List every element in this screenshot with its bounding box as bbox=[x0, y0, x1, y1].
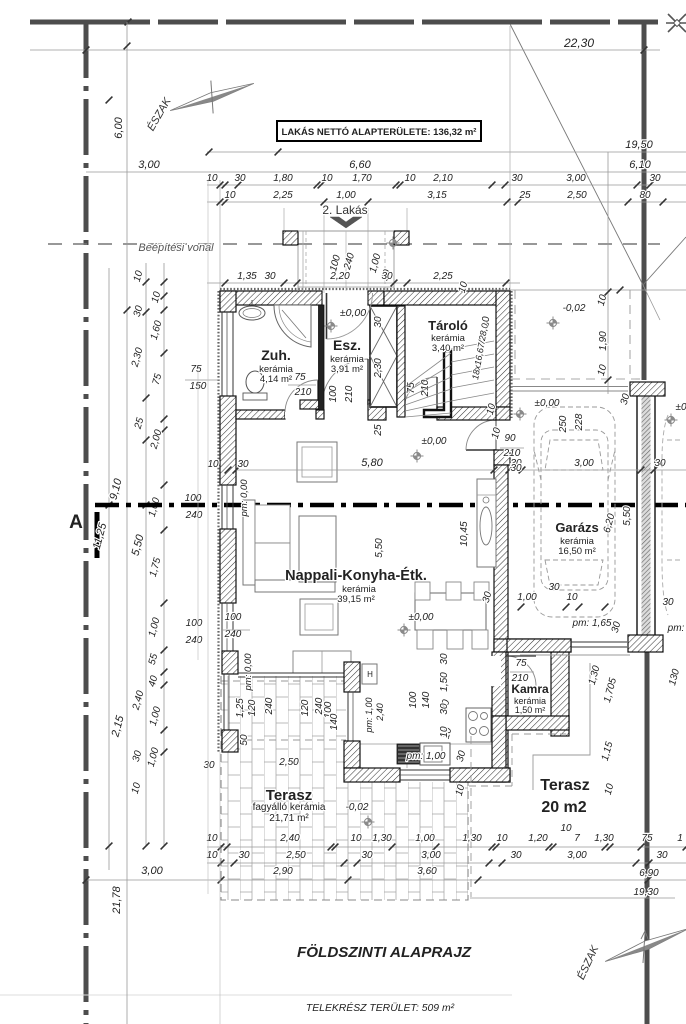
Kamra south wall bbox=[506, 716, 569, 730]
svg-text:4,14 m²: 4,14 m² bbox=[260, 374, 292, 385]
svg-text:30: 30 bbox=[510, 463, 522, 474]
garage face line bbox=[509, 469, 686, 471]
svg-text:pm: 0,00: pm: 0,00 bbox=[239, 479, 250, 518]
svg-text:100: 100 bbox=[225, 612, 242, 623]
tv bench south bbox=[293, 651, 351, 673]
svg-text:Kamra: Kamra bbox=[511, 682, 549, 696]
wall north exterior middle pier bbox=[368, 291, 384, 305]
Kamra step wall lower bbox=[492, 716, 506, 782]
dimension line 22,30 bbox=[30, 49, 660, 51]
porch threshold line bbox=[298, 286, 394, 288]
kitchen south wall west bbox=[344, 768, 400, 782]
svg-text:5,50: 5,50 bbox=[374, 538, 385, 558]
svg-text:±0,00: ±0,00 bbox=[409, 612, 434, 623]
svg-text:10: 10 bbox=[560, 823, 572, 834]
kitchen sink unit dark bbox=[397, 744, 420, 764]
property boundary right upper bbox=[642, 22, 647, 380]
level marker Esz bbox=[325, 320, 338, 333]
svg-text:1,70: 1,70 bbox=[352, 173, 372, 184]
bottom dim row 4 y=898 bbox=[470, 897, 675, 899]
svg-text:±0,00: ±0,00 bbox=[422, 436, 447, 447]
svg-text:-0,02: -0,02 bbox=[346, 802, 369, 813]
svg-text:1,90: 1,90 bbox=[598, 331, 609, 351]
wall west exterior pier 2 bbox=[220, 396, 236, 485]
terrace tiled floor bbox=[221, 676, 468, 900]
svg-text:10: 10 bbox=[321, 173, 333, 184]
svg-text:1,00: 1,00 bbox=[415, 833, 435, 844]
garage face dim line bbox=[490, 289, 686, 291]
stair treads upper bbox=[451, 341, 494, 349]
kitchen counter vertical lines bbox=[477, 494, 496, 496]
Kamra east wall bbox=[551, 652, 569, 736]
svg-text:5,50: 5,50 bbox=[622, 506, 633, 526]
svg-text:3,00: 3,00 bbox=[567, 850, 587, 861]
svg-text:120: 120 bbox=[247, 699, 258, 716]
svg-text:210: 210 bbox=[503, 448, 521, 459]
toilet Zuh bbox=[243, 393, 267, 400]
svg-text:100: 100 bbox=[185, 493, 202, 504]
property boundary top bbox=[30, 20, 658, 25]
svg-text:3,40 m²: 3,40 m² bbox=[432, 343, 464, 354]
left dim vertical line x=146 bbox=[145, 263, 147, 846]
porch steps bbox=[302, 231, 304, 291]
neighbour level marker bbox=[665, 414, 678, 427]
right dim ticks bbox=[605, 289, 612, 296]
svg-text:10: 10 bbox=[404, 173, 416, 184]
kitchen south east wall bbox=[450, 768, 510, 782]
svg-text:1,50: 1,50 bbox=[439, 672, 450, 692]
fridge H box bbox=[362, 664, 377, 684]
svg-text:30: 30 bbox=[439, 703, 450, 715]
svg-text:22,30: 22,30 bbox=[563, 36, 594, 50]
svg-text:140: 140 bbox=[329, 713, 340, 730]
dimension row y=176 bbox=[86, 171, 686, 173]
svg-text:19,30: 19,30 bbox=[633, 887, 658, 898]
svg-text:2,30: 2,30 bbox=[373, 358, 384, 379]
coffee table bbox=[299, 516, 336, 582]
svg-text:39,15 m²: 39,15 m² bbox=[337, 594, 375, 605]
svg-text:30: 30 bbox=[511, 173, 523, 184]
bottom dim row 2 y=863 bbox=[207, 862, 686, 864]
svg-text:1,30: 1,30 bbox=[594, 833, 614, 844]
svg-text:3,91 m²: 3,91 m² bbox=[331, 364, 363, 375]
svg-text:10: 10 bbox=[224, 190, 236, 201]
svg-text:±0,00: ±0,00 bbox=[340, 307, 366, 319]
svg-text:2,40: 2,40 bbox=[375, 703, 385, 722]
svg-text:30: 30 bbox=[656, 850, 668, 861]
section line A-A bbox=[95, 503, 686, 508]
svg-text:10,45: 10,45 bbox=[459, 521, 470, 546]
property boundary left bbox=[84, 22, 89, 1024]
svg-text:10: 10 bbox=[207, 459, 219, 470]
svg-text:30: 30 bbox=[439, 653, 450, 665]
wall west exterior pier 4 bbox=[222, 651, 238, 674]
left dim vertical line x=127 bbox=[126, 22, 128, 1024]
svg-text:pm: 1,65: pm: 1,65 bbox=[572, 618, 612, 629]
svg-text:30: 30 bbox=[510, 850, 522, 861]
svg-text:Terasz: Terasz bbox=[540, 777, 590, 794]
compass needle bottom-right bbox=[603, 924, 686, 965]
svg-text:240: 240 bbox=[185, 635, 203, 646]
svg-text:120: 120 bbox=[300, 699, 311, 716]
svg-text:30: 30 bbox=[361, 850, 373, 861]
svg-text:TELEKRÉSZ TERÜLET: 509 m²: TELEKRÉSZ TERÜLET: 509 m² bbox=[306, 1001, 455, 1014]
Kamra north wall (garage south) bbox=[494, 639, 571, 652]
svg-text:Esz.: Esz. bbox=[333, 337, 361, 353]
svg-text:1,30: 1,30 bbox=[462, 833, 482, 844]
wall east exterior (Tarolo east) bbox=[496, 291, 510, 407]
wall between living and garage bbox=[494, 465, 508, 770]
right dim vertical x=608 bbox=[607, 152, 609, 394]
svg-text:30: 30 bbox=[238, 850, 250, 861]
dining chairs top bbox=[415, 582, 430, 600]
svg-text:228: 228 bbox=[574, 413, 585, 431]
svg-text:30: 30 bbox=[381, 271, 393, 282]
svg-text:90: 90 bbox=[504, 433, 516, 444]
svg-text:30: 30 bbox=[237, 459, 249, 470]
svg-text:75: 75 bbox=[515, 658, 527, 669]
garage south window lines bbox=[571, 641, 627, 643]
kamra area overhang dashes bbox=[460, 734, 566, 786]
Kamra west wall bbox=[492, 652, 506, 716]
svg-text:30: 30 bbox=[373, 316, 384, 328]
porch outline bbox=[298, 230, 394, 232]
svg-text:pm: 1,00: pm: 1,00 bbox=[364, 697, 374, 733]
kitchen west pier low bbox=[344, 741, 360, 768]
level marker dining bbox=[398, 624, 411, 637]
armchair top bbox=[297, 442, 337, 482]
garage south wall west segment bbox=[507, 639, 571, 652]
dimension row y=191 bbox=[207, 184, 686, 186]
svg-text:2. Lakás: 2. Lakás bbox=[322, 203, 367, 217]
svg-text:16,50 m²: 16,50 m² bbox=[558, 546, 596, 557]
svg-text:H: H bbox=[367, 670, 373, 679]
boundary corner mark top-right (star) bbox=[668, 14, 686, 32]
svg-text:Zuh.: Zuh. bbox=[261, 347, 291, 363]
svg-text:6,90: 6,90 bbox=[639, 868, 659, 879]
svg-text:pm:: pm: bbox=[667, 623, 685, 634]
left extension verticals bottom bbox=[207, 180, 209, 894]
wall north exterior west part bbox=[220, 291, 322, 305]
svg-text:1,20: 1,20 bbox=[528, 833, 548, 844]
svg-text:3,00: 3,00 bbox=[566, 173, 586, 184]
building setback dashed line (Beepitesi vonal) bbox=[48, 243, 660, 245]
svg-text:75: 75 bbox=[190, 364, 202, 375]
kitchen counter east bbox=[477, 479, 496, 567]
diagonal guide line long bbox=[510, 24, 643, 285]
dining table bbox=[415, 593, 486, 630]
wall east entry jamb upper bbox=[494, 407, 510, 420]
porch center line bbox=[345, 231, 347, 291]
level marker living bbox=[411, 450, 424, 463]
entry arrow bbox=[330, 217, 362, 228]
svg-text:3,00: 3,00 bbox=[138, 159, 160, 171]
terasz20 boundary lines bbox=[533, 663, 590, 790]
armchair bottom bbox=[300, 599, 338, 635]
Kamra door opening bbox=[491, 656, 501, 686]
wall east exterior below entry bbox=[494, 450, 510, 465]
svg-text:-0,02: -0,02 bbox=[563, 303, 586, 314]
kitchen south window bbox=[400, 769, 460, 771]
stove with burners bbox=[466, 708, 491, 742]
svg-text:±0: ±0 bbox=[675, 402, 686, 413]
svg-text:2,20: 2,20 bbox=[329, 271, 350, 282]
svg-text:6,10: 6,10 bbox=[629, 159, 651, 171]
driveway overhang dashed bottom bbox=[511, 378, 643, 380]
svg-text:2,90: 2,90 bbox=[272, 866, 293, 877]
insulation dotted band top wall bbox=[220, 288, 510, 290]
svg-text:20 m2: 20 m2 bbox=[541, 799, 586, 816]
svg-text:fagyálló kerámia: fagyálló kerámia bbox=[253, 802, 326, 813]
svg-text:2,50: 2,50 bbox=[285, 850, 306, 861]
rear entry door leaf+arc bbox=[466, 449, 496, 451]
svg-text:7: 7 bbox=[574, 833, 580, 844]
property boundary right lower bbox=[645, 652, 650, 1024]
svg-text:6,60: 6,60 bbox=[349, 159, 371, 171]
level marker terrace bbox=[362, 816, 375, 829]
svg-text:3,15: 3,15 bbox=[427, 190, 447, 201]
wall Zuh-Esz partition bbox=[319, 305, 325, 410]
stair wall L-shape bbox=[424, 351, 451, 417]
garage driveway dashed east bbox=[629, 290, 631, 380]
living south glass wall bbox=[238, 672, 345, 674]
svg-text:250: 250 bbox=[558, 415, 569, 433]
svg-text:FÖLDSZINTI ALAPRAJZ: FÖLDSZINTI ALAPRAJZ bbox=[297, 944, 472, 961]
wall west exterior pier 3 bbox=[220, 529, 236, 603]
svg-text:30: 30 bbox=[203, 760, 215, 771]
svg-text:5,80: 5,80 bbox=[361, 457, 383, 469]
svg-text:1,00: 1,00 bbox=[517, 592, 537, 603]
wall Tarolo south east segment bbox=[437, 407, 496, 420]
svg-text:LAKÁS NETTÓ ALAPTERÜLETE: 136,: LAKÁS NETTÓ ALAPTERÜLETE: 136,32 m² bbox=[282, 126, 477, 138]
svg-text:6,00: 6,00 bbox=[113, 116, 125, 138]
svg-text:2,40: 2,40 bbox=[279, 833, 300, 844]
svg-text:10: 10 bbox=[439, 726, 450, 738]
porch pier east bbox=[394, 231, 409, 245]
svg-text:30: 30 bbox=[654, 458, 666, 469]
svg-text:2,50: 2,50 bbox=[566, 190, 587, 201]
svg-text:75: 75 bbox=[294, 372, 306, 383]
svg-text:100: 100 bbox=[328, 385, 339, 402]
kitchen sink basin bbox=[420, 743, 450, 765]
svg-text:3,00: 3,00 bbox=[421, 850, 441, 861]
svg-text:10: 10 bbox=[566, 592, 578, 603]
bottom dim row 1 y=847 bbox=[207, 846, 686, 848]
garage east wall dark core bbox=[642, 394, 651, 638]
svg-text:100: 100 bbox=[186, 618, 203, 629]
svg-text:Nappali-Konyha-Étk.: Nappali-Konyha-Étk. bbox=[285, 567, 427, 584]
kitchen counter edge line bbox=[360, 743, 494, 745]
svg-text:210: 210 bbox=[344, 385, 355, 403]
dimension row y=283 bbox=[207, 282, 520, 284]
wall Esz south segment bbox=[300, 400, 322, 409]
svg-text:21,71 m²: 21,71 m² bbox=[269, 813, 309, 824]
dining chairs bottom bbox=[417, 630, 433, 649]
rear entry door opening bbox=[495, 420, 497, 452]
Kamra door leaf+arc bbox=[506, 656, 536, 686]
svg-text:3,00: 3,00 bbox=[141, 865, 163, 877]
corner sofa bbox=[243, 500, 255, 585]
stair treads winders bbox=[405, 413, 451, 417]
svg-text:30: 30 bbox=[234, 173, 246, 184]
svg-text:2,25: 2,25 bbox=[432, 271, 453, 282]
wall Tarolo west partition bbox=[397, 306, 405, 417]
level marker driveway bbox=[547, 317, 560, 330]
svg-text:30: 30 bbox=[649, 173, 661, 184]
dimension row y=206 bbox=[207, 201, 686, 203]
porch pier west bbox=[283, 231, 298, 245]
svg-text:±0,00: ±0,00 bbox=[535, 398, 560, 409]
svg-text:1: 1 bbox=[677, 833, 683, 844]
svg-text:19,50: 19,50 bbox=[625, 139, 653, 151]
garage south-east pier bbox=[628, 635, 663, 652]
bottom dim row 3 y=880 bbox=[86, 879, 686, 881]
entry door opening in north wall bbox=[321, 293, 323, 303]
svg-text:140: 140 bbox=[421, 691, 432, 708]
svg-text:3,60: 3,60 bbox=[417, 866, 437, 877]
terasz20 dashed vertical bbox=[470, 736, 472, 897]
svg-text:240: 240 bbox=[185, 510, 203, 521]
svg-text:80: 80 bbox=[639, 190, 651, 201]
wall pier between Zuh and Esz doors bbox=[316, 410, 324, 419]
door Tarolo opening arc bbox=[404, 377, 437, 410]
svg-text:Beépítési vonal: Beépítési vonal bbox=[138, 242, 214, 254]
svg-text:pm: 1,00: pm: 1,00 bbox=[406, 751, 446, 762]
svg-text:25: 25 bbox=[518, 190, 531, 201]
compass needle top-left bbox=[165, 68, 259, 126]
svg-text:2,25: 2,25 bbox=[272, 190, 293, 201]
terrace dashed border bbox=[221, 676, 468, 900]
window W4 west wall low bbox=[223, 674, 225, 730]
svg-text:210: 210 bbox=[420, 379, 431, 397]
svg-text:A: A bbox=[69, 512, 83, 533]
left dim vertical line x=109 bbox=[108, 268, 110, 870]
garage door threshold lines bbox=[511, 386, 628, 388]
svg-text:21,78: 21,78 bbox=[111, 885, 123, 914]
svg-text:10: 10 bbox=[350, 833, 362, 844]
svg-text:240: 240 bbox=[264, 697, 275, 715]
kitchen west window bbox=[347, 692, 349, 741]
window W1 west wall bbox=[221, 312, 223, 396]
svg-text:Tároló: Tároló bbox=[428, 318, 468, 333]
svg-text:Garázs: Garázs bbox=[555, 520, 598, 535]
wall bath south (y=410) bbox=[236, 410, 285, 419]
window W2 west wall bbox=[221, 485, 223, 529]
svg-text:25: 25 bbox=[373, 424, 384, 437]
dim 5,80 line bbox=[236, 469, 494, 471]
left dim ticks bbox=[124, 43, 131, 50]
svg-text:30: 30 bbox=[264, 271, 276, 282]
ventilation shaft crossed bbox=[370, 306, 397, 407]
diagonal guide continuation bbox=[643, 285, 660, 320]
entry door leaf+arc bbox=[326, 293, 328, 339]
svg-text:1,25: 1,25 bbox=[235, 698, 246, 718]
sheet edge faint line bbox=[0, 994, 512, 996]
insulation dotted band east wall bbox=[510, 291, 512, 418]
dimension line 19,50 row bbox=[207, 151, 686, 153]
door Esz-living opening with arc bbox=[322, 359, 368, 405]
svg-text:1,50 m²: 1,50 m² bbox=[515, 705, 546, 715]
svg-text:1,80: 1,80 bbox=[273, 173, 293, 184]
door Zuh leaf+arc bbox=[317, 380, 319, 410]
garage driveway dashed west bbox=[514, 290, 516, 380]
insulation dotted band west wall bbox=[217, 291, 219, 752]
wall west exterior pier 5 bbox=[222, 730, 238, 752]
vertical extensions above building bbox=[219, 180, 221, 291]
svg-text:1,35: 1,35 bbox=[237, 271, 257, 282]
garage north-east pier bbox=[630, 382, 665, 396]
wall pier south of shaft bbox=[368, 400, 386, 420]
svg-text:240: 240 bbox=[224, 629, 242, 640]
left dim vertical line x=164 bbox=[163, 263, 165, 846]
garage east wall outline bbox=[637, 394, 655, 638]
porch level marker bbox=[387, 237, 400, 250]
terrace inner dashed line bbox=[221, 739, 346, 741]
svg-text:2,50: 2,50 bbox=[278, 757, 299, 768]
car in garage bbox=[534, 407, 615, 617]
neighbour car dashes bbox=[662, 415, 680, 615]
wall north exterior east part bbox=[384, 291, 510, 305]
svg-text:210: 210 bbox=[294, 387, 312, 398]
svg-text:50: 50 bbox=[239, 734, 250, 746]
svg-text:1,30: 1,30 bbox=[372, 833, 392, 844]
svg-text:30: 30 bbox=[548, 582, 560, 593]
garage south threshold line bbox=[520, 654, 630, 656]
svg-text:75: 75 bbox=[641, 833, 653, 844]
diagonal guide line short bbox=[643, 237, 686, 285]
door Zuh opening bbox=[285, 410, 318, 419]
window W3 west wall bbox=[221, 603, 223, 651]
svg-text:10: 10 bbox=[496, 833, 508, 844]
terrace overhang dashed line bbox=[221, 680, 346, 682]
svg-text:100: 100 bbox=[408, 691, 419, 708]
shower corner Zuh bbox=[274, 305, 311, 347]
area info box bbox=[277, 121, 481, 141]
kitchen south wall east bbox=[460, 768, 510, 782]
wall west exterior pier 1 bbox=[220, 291, 236, 312]
svg-text:1,00: 1,00 bbox=[336, 190, 356, 201]
washbasin Zuh bbox=[239, 306, 265, 320]
kitchen west pier bbox=[344, 662, 360, 692]
section marker bar bbox=[95, 512, 100, 558]
garage level marker bbox=[514, 408, 527, 421]
svg-text:3,00: 3,00 bbox=[574, 458, 594, 469]
svg-text:pm: 0,00: pm: 0,00 bbox=[243, 653, 254, 692]
svg-text:30: 30 bbox=[662, 597, 674, 608]
svg-text:2,10: 2,10 bbox=[432, 173, 453, 184]
